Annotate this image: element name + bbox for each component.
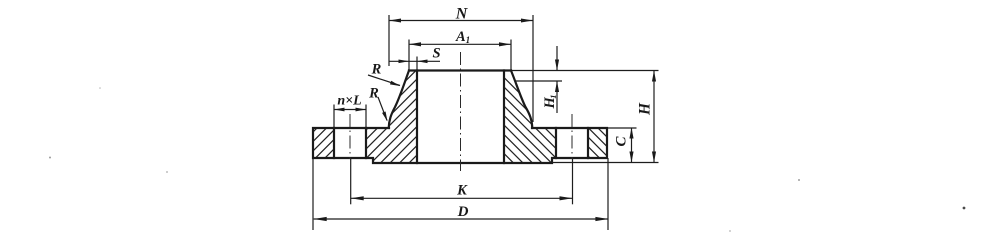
bolt hole left edge lines <box>334 128 366 158</box>
leader R lower <box>378 97 387 121</box>
dimension N line <box>389 15 533 122</box>
svg-text:R: R <box>368 86 379 102</box>
dimension S line <box>389 57 440 71</box>
hatching hub right section <box>341 0 687 245</box>
svg-text:n×L: n×L <box>337 94 361 109</box>
dimension C <box>631 128 633 163</box>
dimension K <box>351 197 573 199</box>
dimension H1 <box>556 46 558 113</box>
dimension H <box>653 71 655 163</box>
bore right line <box>503 71 505 164</box>
dimension D <box>313 158 608 230</box>
svg-text:D: D <box>457 204 469 220</box>
dimension n x L <box>334 105 366 129</box>
hatching flange right block <box>432 0 730 245</box>
flange body outline <box>313 128 607 163</box>
bolt hole right edge lines <box>556 128 588 158</box>
bore left line <box>416 71 418 164</box>
main centerline <box>460 52 462 171</box>
extension line C top <box>608 127 637 129</box>
svg-text:H: H <box>637 102 654 116</box>
hub left outer curve <box>389 71 409 129</box>
left bolt hole centerline <box>349 114 351 159</box>
svg-text:S: S <box>432 46 440 62</box>
hatching flange left block <box>185 0 483 245</box>
dimension A1 line <box>409 40 511 71</box>
svg-text:C: C <box>614 136 630 147</box>
right bolt hole centerline <box>571 114 573 159</box>
leader R upper <box>368 75 400 86</box>
svg-text:K: K <box>456 183 468 199</box>
hub right outer curve <box>511 71 532 129</box>
paper specks <box>49 157 51 159</box>
hatching hub left section <box>217 0 572 245</box>
extension line raised face right <box>552 162 659 164</box>
neck top edge <box>409 69 511 71</box>
svg-text:R: R <box>371 62 382 78</box>
extension line top right <box>512 70 659 72</box>
extension line H1 bottom <box>516 80 562 82</box>
svg-text:N: N <box>455 6 469 23</box>
